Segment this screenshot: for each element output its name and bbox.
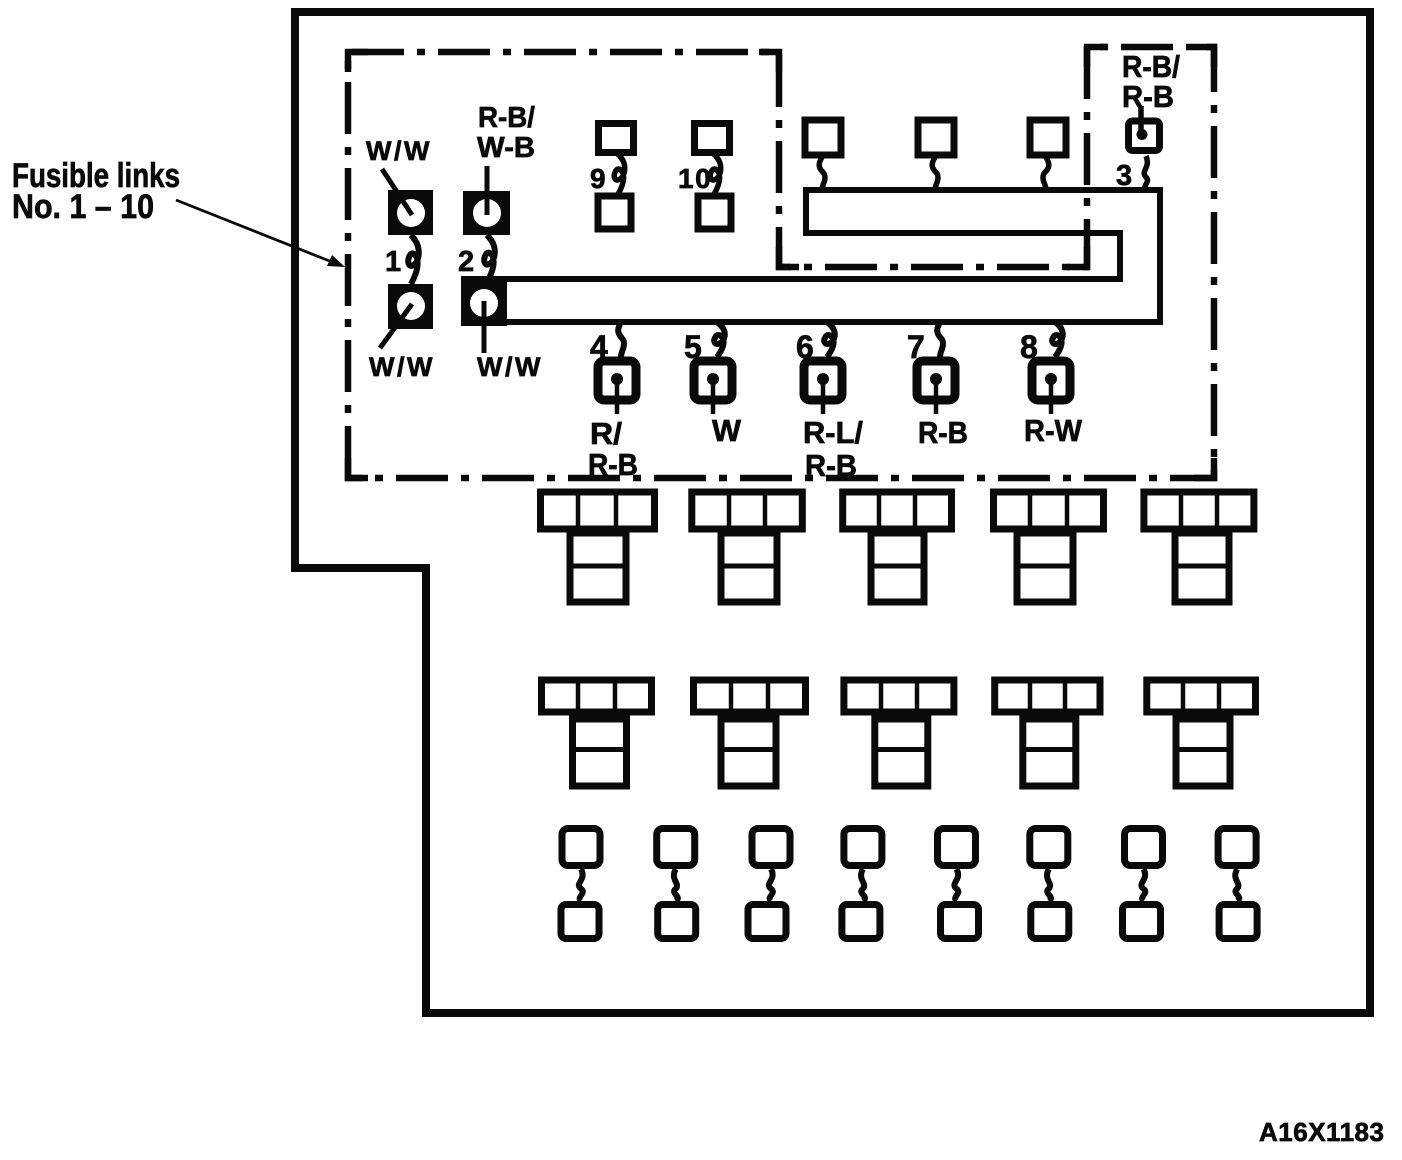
fusible link 1 upper terminal	[388, 190, 433, 235]
label R-B/ (link 3)	[1122, 49, 1180, 84]
connector row1 #2	[692, 492, 803, 602]
svg-text:R-W: R-W	[1024, 413, 1083, 448]
fusible link 6 holder	[804, 361, 842, 414]
label 7	[907, 329, 925, 365]
fusible link 8 holder	[1032, 361, 1070, 414]
svg-text:R-B: R-B	[805, 448, 857, 483]
wire lead into link 3	[1138, 106, 1144, 132]
svg-text:R-B: R-B	[1122, 79, 1174, 114]
svg-text:2: 2	[458, 246, 474, 278]
connector row1 #3	[843, 492, 952, 602]
wire lead from link 1 lower terminal	[380, 304, 412, 348]
fusible link 3 holder	[1129, 121, 1160, 151]
label W/W (link 1 upper)	[366, 136, 432, 166]
bus terminal block 3 (top row)	[1030, 120, 1066, 155]
fusible link 4 holder	[598, 361, 636, 414]
wire from terminal block 1 to bus bar	[819, 157, 825, 190]
fuse box outer case outline	[295, 12, 1370, 1013]
svg-text:10: 10	[678, 163, 712, 194]
spare fuse pair #6 upper terminal	[1030, 829, 1068, 866]
svg-text:W/W: W/W	[366, 136, 432, 166]
wire: spare fuse pair #2 element	[674, 869, 678, 901]
wire lead from link 2 upper terminal	[485, 166, 490, 215]
bus terminal block 1 (top row)	[805, 120, 841, 155]
label R-L/ (link 6)	[803, 415, 863, 450]
label W/W (link 2 lower)	[477, 352, 543, 382]
label 4	[590, 329, 608, 365]
spare fuse pair #7 upper terminal	[1125, 829, 1163, 866]
wire: link 2 fusible element	[484, 235, 495, 282]
svg-text:W/W: W/W	[477, 352, 543, 382]
wire from bus bar to link 4	[618, 322, 624, 357]
leader arrow to compartment	[176, 200, 345, 267]
svg-text:1: 1	[385, 246, 401, 278]
fusible link 2 upper terminal	[463, 191, 510, 235]
label 9	[590, 163, 606, 194]
label W-B (link 2 upper)	[477, 132, 535, 164]
label R-W (link 8)	[1024, 413, 1083, 448]
fusible link 10 upper terminal	[695, 124, 730, 153]
label 6	[796, 329, 814, 365]
svg-text:7: 7	[907, 329, 925, 365]
wire: spare fuse pair #5 element	[954, 869, 958, 901]
svg-text:5: 5	[684, 329, 702, 365]
bus terminal block 2 (top row)	[918, 120, 954, 155]
svg-text:W/W: W/W	[369, 352, 435, 382]
spare fuse pair #8 lower terminal	[1219, 905, 1257, 939]
fusible link 9 lower terminal	[598, 196, 631, 229]
wire from bus bar to link 6	[824, 322, 835, 357]
label R/ (link 4)	[590, 416, 622, 451]
fusible link 1 lower terminal	[388, 284, 433, 329]
wire from bus bar to link 8	[1052, 322, 1063, 357]
spare fuse pair #1 lower terminal	[561, 905, 599, 939]
wire lead from link 2 lower terminal	[482, 301, 487, 353]
wire: spare fuse pair #4 element	[861, 869, 865, 901]
fusible link 5 holder	[694, 361, 732, 414]
label R-B/ (link 2 upper)	[478, 102, 535, 134]
wire: spare fuse pair #1 element	[579, 869, 583, 901]
bus bar (stepped conductor strip)	[464, 190, 1160, 322]
wire from terminal block 3 to bus bar	[1043, 157, 1049, 190]
label 8	[1020, 329, 1038, 365]
spare fuse pair #2 upper terminal	[657, 829, 695, 866]
svg-text:No. 1 – 10: No. 1 – 10	[12, 188, 154, 226]
wire from bus bar to link 5	[714, 322, 725, 357]
label 1	[385, 246, 401, 278]
connector row1 #5	[1144, 492, 1254, 602]
wire: link 1 fusible element	[408, 235, 419, 284]
wire: spare fuse pair #8 element	[1235, 869, 1239, 901]
svg-text:R-L/: R-L/	[803, 415, 863, 450]
label W/W (link 1 lower)	[369, 352, 435, 382]
spare fuse pair #3 lower terminal	[748, 905, 786, 939]
wire: link 10 fusible element	[710, 153, 721, 196]
connector row1 #1	[541, 492, 655, 602]
spare fuse pair #6 lower terminal	[1031, 905, 1069, 939]
svg-text:R/: R/	[590, 416, 622, 451]
svg-text:R-B: R-B	[588, 447, 638, 482]
fusible link 2 lower terminal	[461, 281, 507, 326]
spare fuse pair #5 upper terminal	[938, 829, 976, 866]
svg-text:6: 6	[796, 329, 814, 365]
label R-B (link 7)	[918, 415, 968, 450]
connector row2 #4	[995, 680, 1100, 786]
fusible-links compartment boundary (dash-dot)	[348, 47, 1214, 478]
svg-text:W: W	[712, 413, 742, 448]
svg-text:9: 9	[590, 163, 606, 194]
label 2	[458, 246, 474, 278]
wire: spare fuse pair #3 element	[769, 869, 773, 901]
spare fuse pair #7 lower terminal	[1123, 905, 1161, 939]
figure number A16X1183	[1259, 1117, 1384, 1147]
wire from bus bar to link 7	[937, 322, 943, 357]
label 10	[678, 163, 712, 194]
wire: spare fuse pair #7 element	[1141, 869, 1145, 901]
spare fuse pair #5 lower terminal	[941, 905, 979, 939]
wire: link 9 fusible element	[614, 153, 625, 196]
connector row2 #1	[542, 680, 652, 786]
fusible link 7 holder	[917, 361, 955, 414]
fusible link 10 lower terminal	[698, 196, 731, 229]
label R-B (link 3)	[1122, 79, 1174, 114]
label 3	[1116, 160, 1132, 192]
spare fuse pair #8 upper terminal	[1218, 829, 1256, 866]
label R-B (link 6)	[805, 448, 857, 483]
wire from terminal block 2 to bus bar	[932, 157, 938, 190]
connector row2 #2	[694, 680, 806, 786]
svg-text:A16X1183: A16X1183	[1259, 1117, 1384, 1147]
spare fuse pair #4 lower terminal	[842, 905, 880, 939]
spare fuse pair #2 lower terminal	[658, 905, 696, 939]
connector row2 #3	[844, 680, 954, 786]
spare fuse pair #3 upper terminal	[752, 829, 790, 866]
wire: spare fuse pair #6 element	[1047, 869, 1051, 901]
label R-B (link 4)	[588, 447, 638, 482]
spare fuse pair #4 upper terminal	[844, 829, 882, 866]
fusible link 9 upper terminal	[599, 124, 634, 153]
svg-text:R-B: R-B	[918, 415, 968, 450]
connector row2 #5	[1147, 680, 1256, 786]
label 5	[684, 329, 702, 365]
svg-text:W-B: W-B	[477, 132, 535, 164]
note: Fusible links No. 1-10	[12, 157, 180, 226]
spare fuse pair #1 upper terminal	[562, 829, 600, 866]
wire lead from link 1 upper terminal	[382, 169, 412, 215]
wire: link 3 to bus bar	[1144, 156, 1147, 190]
svg-text:R-B/: R-B/	[478, 102, 535, 134]
svg-text:8: 8	[1020, 329, 1038, 365]
connector row1 #4	[994, 492, 1104, 602]
svg-text:4: 4	[590, 329, 608, 365]
label W (link 5)	[712, 413, 742, 448]
svg-text:3: 3	[1116, 160, 1132, 192]
